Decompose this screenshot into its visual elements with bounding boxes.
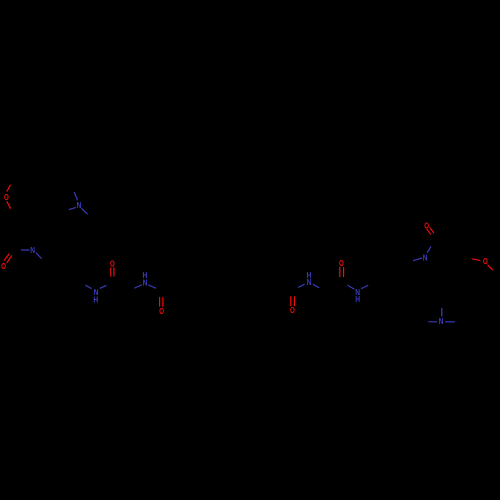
svg-text:O: O <box>290 305 295 315</box>
svg-text:N: N <box>439 316 444 326</box>
svg-text:N: N <box>307 277 312 287</box>
svg-text:N: N <box>143 277 148 287</box>
svg-text:O: O <box>110 259 115 269</box>
svg-text:N: N <box>77 200 82 210</box>
svg-text:O: O <box>159 306 164 316</box>
svg-text:H: H <box>355 294 360 304</box>
svg-text:O: O <box>483 256 488 266</box>
svg-text:O: O <box>1 261 6 271</box>
svg-text:O: O <box>4 192 9 202</box>
svg-text:N: N <box>423 253 428 263</box>
svg-text:N: N <box>30 245 35 255</box>
svg-text:O: O <box>339 258 344 268</box>
svg-text:H: H <box>93 294 98 304</box>
